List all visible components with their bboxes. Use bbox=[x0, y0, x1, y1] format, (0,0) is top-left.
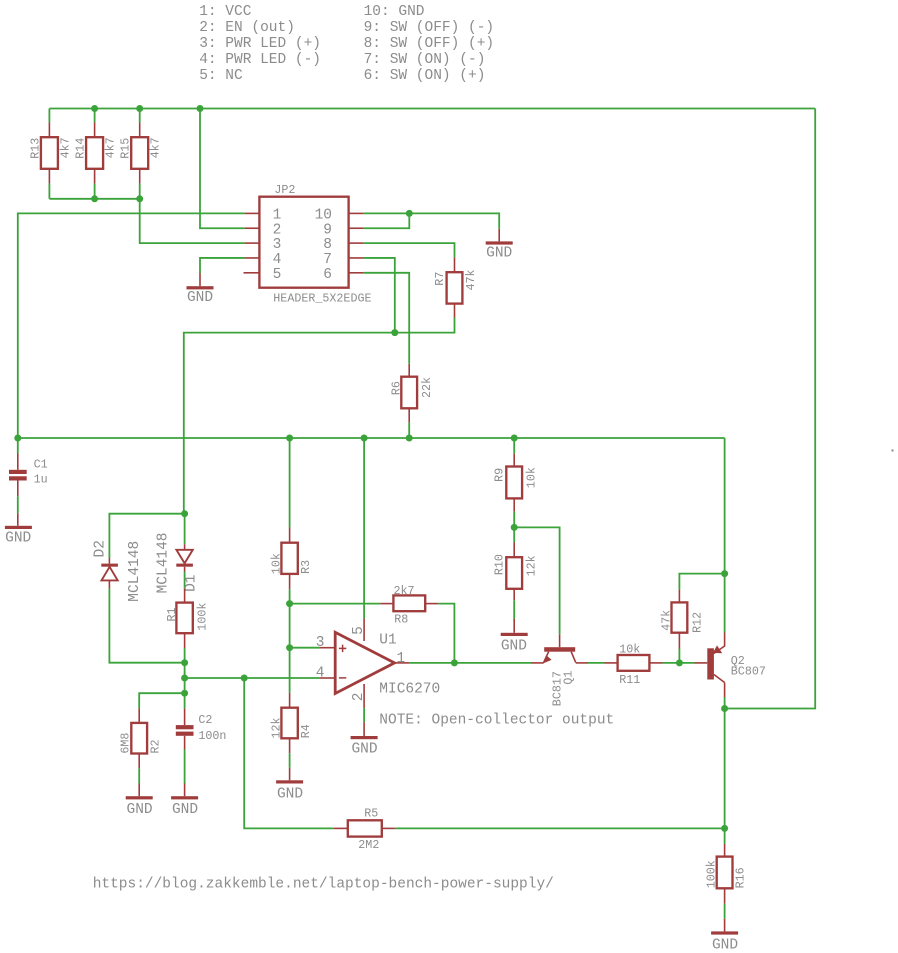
pin R8 right bbox=[425, 603, 438, 605]
capacitor C1 bbox=[9, 470, 27, 474]
svg-text:1: 1 bbox=[397, 651, 406, 667]
svg-text:9: SW (OFF) (-): 9: SW (OFF) (-) bbox=[364, 20, 495, 36]
wire R7 bottom bus to D-node bbox=[184, 318, 455, 514]
resistor R15 bbox=[131, 137, 148, 169]
junction output/R8 node bbox=[451, 659, 458, 666]
ground symbol at JP2 pin10 bbox=[486, 241, 513, 244]
pin R6 top bbox=[408, 364, 410, 377]
pin C1 bottom bbox=[17, 481, 19, 497]
wire Q2 emitter node to R12 bbox=[679, 574, 724, 590]
pin C2 bottom bbox=[184, 736, 186, 750]
ground symbol at C2 bbox=[171, 796, 198, 799]
pin R15 top bbox=[139, 122, 141, 137]
junction +input node bbox=[286, 644, 293, 651]
pin R16 bottom bbox=[724, 888, 726, 904]
junction mid rail at R6 bbox=[406, 435, 413, 442]
pin R7 bottom bbox=[454, 304, 456, 318]
svg-text:GND: GND bbox=[277, 786, 303, 802]
resistor R10 bbox=[506, 557, 522, 589]
pin opamp 4 stub bbox=[320, 677, 335, 679]
pin Q1 base stub bbox=[559, 634, 561, 647]
transistor Q1 emitter bbox=[544, 652, 549, 663]
wire D1 to R1 bbox=[184, 572, 186, 589]
pin D1 anode bbox=[184, 544, 186, 550]
pin R11 left bbox=[605, 662, 618, 664]
resistor R12 bbox=[672, 602, 688, 632]
wire pullup bottom bus bbox=[49, 198, 139, 200]
pin JP2-10 stub bbox=[349, 212, 364, 214]
pin R14 top bbox=[94, 122, 96, 137]
svg-text:100k: 100k bbox=[196, 603, 210, 631]
wire EN net to JP2 pin2 bbox=[200, 109, 245, 229]
junction mid rail at R3 bbox=[286, 435, 293, 442]
pin JP2-1 stub bbox=[245, 212, 260, 214]
wire R11 to Q2 base node bbox=[663, 662, 695, 664]
svg-text:R14: R14 bbox=[74, 138, 88, 159]
wire emitter node down bbox=[724, 574, 726, 633]
pin D2 cathode bbox=[108, 558, 110, 564]
svg-text:10: GND: 10: GND bbox=[364, 4, 425, 20]
resistor R14 bbox=[86, 137, 103, 169]
pin D2 anode bbox=[108, 580, 110, 588]
wire JP2 pin8 to R7 bbox=[363, 243, 454, 257]
ground symbol at JP2 pin4 bbox=[187, 286, 214, 289]
svg-text:6: 6 bbox=[323, 267, 332, 283]
wire diode node to D2 bbox=[109, 514, 184, 558]
svg-text:R5: R5 bbox=[364, 807, 378, 821]
svg-text:MCL4148: MCL4148 bbox=[155, 532, 171, 593]
wire divider to Q1 base bbox=[514, 527, 559, 634]
junction Q2 collector node bbox=[721, 705, 728, 712]
svg-text:GND: GND bbox=[172, 802, 198, 818]
svg-text:100k: 100k bbox=[704, 860, 718, 888]
junction bottom bus at R14 bbox=[91, 195, 98, 202]
wire rail to R3 bbox=[289, 438, 291, 527]
svg-text:12k: 12k bbox=[525, 555, 539, 576]
wire R15 to bottom bus bbox=[139, 184, 141, 199]
pin Q1 emitter wire bbox=[531, 662, 544, 664]
pin R10 bottom bbox=[513, 589, 515, 600]
svg-text:4k7: 4k7 bbox=[58, 137, 72, 158]
svg-text:HEADER_5X2EDGE: HEADER_5X2EDGE bbox=[273, 291, 371, 305]
pin opamp 5 (V+) bbox=[363, 619, 365, 641]
svg-text:R2: R2 bbox=[148, 739, 162, 753]
svg-text:4: PWR LED (-): 4: PWR LED (-) bbox=[199, 52, 321, 68]
svg-text:GND: GND bbox=[5, 531, 31, 547]
diode D2 MCL4148 cathode bar bbox=[101, 564, 118, 567]
transistor Q1 BC817 base bar bbox=[544, 647, 575, 652]
pin opamp 2 (V-) bbox=[363, 684, 365, 708]
ground symbol at R16 bbox=[711, 931, 738, 934]
svg-text:6: SW (ON) (+): 6: SW (ON) (+) bbox=[364, 68, 486, 84]
wire R14 to bottom bus bbox=[94, 184, 96, 199]
resistor R16 bbox=[717, 857, 733, 889]
svg-text:2k7: 2k7 bbox=[394, 584, 415, 598]
pin R9 bottom bbox=[513, 498, 515, 511]
wire R16 to ground bbox=[724, 904, 726, 919]
svg-text:C2: C2 bbox=[198, 713, 212, 727]
pin R11 right bbox=[649, 662, 662, 664]
svg-text:R12: R12 bbox=[691, 612, 705, 633]
svg-text:R11: R11 bbox=[619, 673, 640, 687]
diode D1 cathode bar bbox=[176, 564, 193, 567]
svg-text:GND: GND bbox=[486, 245, 512, 261]
wire JP2 pin9 loop bbox=[363, 213, 409, 228]
svg-text:3: 3 bbox=[273, 237, 282, 253]
wire rail drop to R15 bbox=[139, 109, 141, 123]
wire R9 to divider node bbox=[513, 512, 515, 528]
pin GND stub (JP2 pin4) bbox=[199, 273, 201, 286]
pin R16 top bbox=[724, 844, 726, 857]
svg-text:1u: 1u bbox=[34, 472, 48, 486]
wire Q1 collector to R11 bbox=[588, 662, 605, 664]
wire node down to +input node bbox=[289, 604, 291, 648]
pin GND stub (JP2 pin10) bbox=[498, 229, 500, 242]
svg-text:4k7: 4k7 bbox=[104, 137, 118, 158]
svg-text:GND: GND bbox=[712, 937, 738, 953]
junction inverting input node bbox=[181, 675, 188, 682]
svg-text:R15: R15 bbox=[119, 138, 133, 159]
wire node to R16 bbox=[724, 828, 726, 844]
svg-text:10k: 10k bbox=[525, 467, 539, 488]
junction pin7 on R7 bus bbox=[391, 329, 398, 336]
wire R12 to base node bbox=[678, 649, 680, 663]
svg-text:10k: 10k bbox=[619, 643, 640, 657]
svg-text:5: 5 bbox=[273, 267, 282, 283]
svg-text:22k: 22k bbox=[420, 377, 434, 398]
wire JP2 pin4 to ground bbox=[200, 258, 245, 273]
svg-text:4: 4 bbox=[316, 665, 325, 681]
pin JP2-5 stub bbox=[244, 272, 260, 274]
ground symbol at U1 bbox=[351, 736, 378, 739]
pin opamp 1 (output) bbox=[395, 662, 410, 664]
pin R2 top bbox=[138, 708, 140, 723]
pin R3 top bbox=[289, 527, 291, 542]
transistor Q1 collector bbox=[571, 652, 576, 663]
wire R15 to JP2 pin3 bbox=[140, 199, 245, 243]
pin GND stub (C2) bbox=[184, 784, 186, 797]
pin GND stub (R2) bbox=[138, 784, 140, 797]
wire VCC net to JP2 pin1 bbox=[18, 213, 245, 438]
pin R3 bottom bbox=[289, 574, 291, 589]
svg-text:1: 1 bbox=[273, 208, 282, 224]
svg-text:8: 8 bbox=[323, 237, 332, 253]
svg-text:NOTE: Open-collector output: NOTE: Open-collector output bbox=[379, 713, 614, 729]
junction Q2 base node bbox=[676, 659, 683, 666]
svg-text:7: 7 bbox=[323, 252, 332, 268]
svg-text:Q1: Q1 bbox=[561, 671, 575, 685]
svg-text:7: SW (ON) (-): 7: SW (ON) (-) bbox=[364, 52, 486, 68]
resistor R13 bbox=[41, 137, 58, 169]
junction R1/D2 node bbox=[181, 659, 188, 666]
junction mid rail at R9 bbox=[511, 435, 518, 442]
svg-text:6M8: 6M8 bbox=[119, 733, 133, 754]
pin Q2 base stub bbox=[695, 662, 708, 664]
pin R5 right bbox=[382, 827, 395, 829]
wire -input to opamp bbox=[185, 677, 320, 679]
junction divider node bbox=[511, 524, 518, 531]
svg-text:4k7: 4k7 bbox=[149, 137, 163, 158]
pin R5 left bbox=[334, 827, 348, 829]
pin GND stub (R4) bbox=[289, 768, 291, 781]
svg-text:10: 10 bbox=[315, 208, 332, 224]
wire diode node to D1 bbox=[184, 514, 186, 545]
svg-text:10k: 10k bbox=[269, 553, 283, 574]
junction top rail at R14 bbox=[91, 105, 98, 112]
junction R5/R16 node bbox=[721, 825, 728, 832]
node stray mark bbox=[891, 449, 893, 451]
junction R2/C2 node bbox=[181, 690, 188, 697]
wire R3 to R8 node bbox=[289, 589, 291, 603]
wire rail drop to R13 bbox=[48, 109, 50, 123]
svg-text:R3: R3 bbox=[299, 560, 313, 574]
junction Q2 emitter node bbox=[721, 570, 728, 577]
pin R9 top bbox=[513, 454, 515, 467]
wire rail to C1 bbox=[17, 438, 19, 454]
pin R1 bottom bbox=[184, 633, 186, 648]
capacitor C2 bbox=[176, 725, 194, 729]
svg-text:5: NC: 5: NC bbox=[199, 68, 243, 84]
wire mid rail right branch down bbox=[724, 438, 726, 574]
wire JP2 pin6 to R6 bbox=[363, 273, 409, 364]
pin JP2-4 stub bbox=[245, 257, 260, 259]
pin C2 top bbox=[184, 709, 186, 726]
op-amp U1 triangle bbox=[335, 632, 394, 693]
pin R13 top bbox=[48, 122, 50, 137]
op-amp U1 plus sign bbox=[339, 647, 346, 649]
svg-text:3: 3 bbox=[316, 635, 325, 651]
wire R6 to mid rail bbox=[408, 423, 410, 438]
svg-text:2: EN (out): 2: EN (out) bbox=[199, 20, 295, 36]
wire C1 to ground bbox=[17, 496, 19, 513]
junction mid rail at C1 bbox=[14, 435, 21, 442]
pin GND stub (U1) bbox=[363, 722, 365, 736]
wire R10 to ground bbox=[513, 600, 515, 619]
resistor R3 bbox=[281, 543, 297, 574]
svg-text:47k: 47k bbox=[659, 610, 673, 631]
svg-text:R13: R13 bbox=[28, 138, 42, 159]
diode D2 triangle bbox=[102, 567, 118, 581]
svg-text:U1: U1 bbox=[379, 632, 396, 648]
ground symbol at C1 bbox=[5, 526, 32, 529]
pin opamp 3 stub bbox=[320, 647, 335, 649]
diode D1 MCL4148 triangle bbox=[176, 550, 192, 564]
wire R1 to inverting node bbox=[184, 648, 186, 663]
wire Q2 collector to bottom node bbox=[724, 697, 726, 709]
wire R2 to ground bbox=[138, 768, 140, 783]
pin GND stub (C1) bbox=[17, 513, 19, 526]
wire output to Q1 bbox=[409, 662, 531, 664]
svg-text:GND: GND bbox=[351, 742, 377, 758]
svg-text:R7: R7 bbox=[433, 272, 447, 286]
svg-text:R9: R9 bbox=[493, 468, 507, 482]
resistor R8 bbox=[393, 595, 425, 611]
pin JP2-3 stub bbox=[245, 242, 260, 244]
wire JP2 pin7 drop bbox=[363, 258, 394, 333]
pin R1 top bbox=[184, 589, 186, 603]
svg-text:8: SW (OFF) (+): 8: SW (OFF) (+) bbox=[364, 36, 495, 52]
op-amp U1 minus sign bbox=[339, 677, 346, 679]
wire Q2 node down bbox=[724, 709, 726, 829]
resistor R9 bbox=[506, 467, 522, 499]
pin R15 bottom bbox=[139, 169, 141, 184]
junction R3/R8 node bbox=[286, 600, 293, 607]
junction mid rail at opamp V+ bbox=[361, 435, 368, 442]
svg-text:JP2: JP2 bbox=[274, 183, 295, 197]
svg-text:2M2: 2M2 bbox=[358, 838, 379, 852]
pin R7 top bbox=[454, 257, 456, 272]
junction pin9 to pin10 net bbox=[406, 210, 413, 217]
pin R12 top bbox=[678, 589, 680, 602]
wire opamp V- to ground bbox=[363, 708, 365, 722]
svg-text:4: 4 bbox=[273, 252, 282, 268]
svg-text:C1: C1 bbox=[34, 457, 48, 471]
pin R6 bottom bbox=[408, 408, 410, 422]
pin Q2 emitter wire bbox=[724, 633, 726, 647]
resistor R7 bbox=[447, 272, 463, 303]
wire +input to opamp bbox=[290, 647, 320, 649]
wire node to C2 bbox=[184, 693, 186, 708]
resistor R1 bbox=[176, 603, 192, 634]
svg-text:47k: 47k bbox=[464, 269, 478, 290]
resistor R6 bbox=[401, 377, 417, 409]
wire mid rail bbox=[18, 437, 725, 439]
wire divider to R10 bbox=[513, 527, 515, 542]
wire R8 left bbox=[290, 603, 381, 605]
resistor R11 bbox=[618, 655, 650, 671]
svg-text:1: VCC: 1: VCC bbox=[199, 4, 252, 20]
svg-text:GND: GND bbox=[127, 802, 153, 818]
svg-text:R10: R10 bbox=[493, 554, 507, 575]
wire rail drop to R14 bbox=[94, 109, 96, 123]
wire node to R2C2 node bbox=[184, 678, 186, 693]
junction diode top node bbox=[181, 510, 188, 517]
wire node down to R4 bbox=[289, 648, 291, 693]
resistor R2 bbox=[131, 723, 147, 754]
junction bottom bus at R15 bbox=[136, 195, 143, 202]
wire R4 to ground bbox=[289, 753, 291, 768]
ground symbol at R10 bbox=[501, 633, 528, 636]
pin JP2-8 stub bbox=[349, 242, 364, 244]
wire JP2 pin10 to ground corner bbox=[363, 213, 499, 228]
pin JP2-7 stub bbox=[349, 257, 364, 259]
pin Q2 collector wire bbox=[724, 683, 726, 698]
svg-text:GND: GND bbox=[501, 638, 527, 654]
pin R10 top bbox=[513, 543, 515, 558]
svg-text:GND: GND bbox=[187, 290, 213, 306]
svg-text:100n: 100n bbox=[198, 729, 226, 743]
pin C1 top bbox=[17, 454, 19, 470]
wire R5 to Q2 node bbox=[395, 827, 725, 829]
svg-text:2: 2 bbox=[273, 222, 282, 238]
pin JP2-6 stub bbox=[349, 272, 364, 274]
pin R4 bottom bbox=[289, 738, 291, 753]
wire node link bbox=[184, 663, 186, 678]
svg-text:R16: R16 bbox=[734, 867, 748, 888]
transistor Q2 BC807 base bar bbox=[707, 648, 714, 679]
junction top rail at R15 bbox=[136, 105, 143, 112]
svg-text:MIC6270: MIC6270 bbox=[379, 681, 440, 697]
wire D2 anode to R1 node bbox=[109, 589, 184, 663]
pin R8 left bbox=[380, 603, 393, 605]
pin R12 bottom bbox=[678, 633, 680, 649]
svg-text:R8: R8 bbox=[394, 612, 408, 626]
pin D1 cathode bbox=[184, 567, 186, 572]
wire VCC right loop bbox=[725, 109, 816, 709]
svg-text:R6: R6 bbox=[389, 381, 403, 395]
pin Q1 collector wire bbox=[576, 662, 588, 664]
svg-text:https://blog.zakkemble.net/lap: https://blog.zakkemble.net/laptop-bench-… bbox=[93, 877, 554, 893]
junction -input to R5 bbox=[241, 675, 248, 682]
resistor R5 bbox=[348, 820, 382, 836]
ground symbol at R4 bbox=[276, 780, 303, 783]
pin GND stub (R16) bbox=[724, 919, 726, 932]
wire VCC top rail bbox=[49, 108, 815, 110]
svg-text:R4: R4 bbox=[299, 724, 313, 738]
pin R14 bottom bbox=[94, 169, 96, 184]
pin R2 bottom bbox=[138, 754, 140, 769]
ground symbol at R2 bbox=[126, 796, 153, 799]
wire -input node down bbox=[244, 678, 334, 828]
transistor Q2 emitter diagonal bbox=[714, 646, 725, 654]
svg-text:D2: D2 bbox=[92, 540, 108, 557]
svg-text:BC807: BC807 bbox=[731, 664, 766, 678]
wire rail to R9 bbox=[513, 438, 515, 454]
svg-text:12k: 12k bbox=[269, 717, 283, 738]
pin GND stub (R10) bbox=[513, 619, 515, 633]
pin JP2-2 stub bbox=[245, 227, 260, 229]
svg-text:D1: D1 bbox=[184, 574, 200, 591]
transistor Q2 collector diagonal bbox=[714, 675, 725, 683]
junction top rail at EN drop bbox=[197, 105, 204, 112]
svg-text:3: PWR LED (+): 3: PWR LED (+) bbox=[199, 36, 321, 52]
pin JP2-9 stub bbox=[349, 227, 364, 229]
wire rail to opamp V+ bbox=[363, 438, 365, 619]
wire R8 right to output bbox=[438, 604, 454, 663]
wire R13 to bottom bus bbox=[48, 184, 50, 199]
pin R4 top bbox=[289, 693, 291, 708]
connector JP2 outline bbox=[259, 197, 348, 288]
wire C2 to ground bbox=[184, 750, 186, 784]
svg-text:R1: R1 bbox=[165, 607, 179, 621]
pin R13 bottom bbox=[48, 169, 50, 184]
svg-text:9: 9 bbox=[323, 222, 332, 238]
resistor R4 bbox=[281, 708, 297, 739]
wire node to R2 bbox=[139, 693, 184, 708]
svg-text:MCL4148: MCL4148 bbox=[127, 541, 143, 602]
